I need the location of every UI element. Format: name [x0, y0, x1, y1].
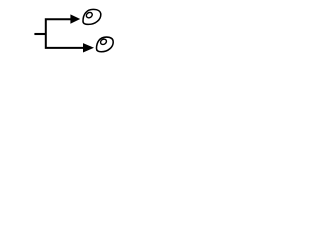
- symbol top inner ellipse: [85, 11, 93, 19]
- symbol bottom outer oval: [97, 37, 114, 52]
- arrowhead bottom: [83, 43, 94, 52]
- arrowhead top: [70, 14, 80, 23]
- wire branches: [46, 19, 83, 48]
- symbol bottom inner ellipse: [100, 38, 108, 46]
- wire input stub: [34, 33, 45, 35]
- symbol top outer oval: [83, 9, 101, 24]
